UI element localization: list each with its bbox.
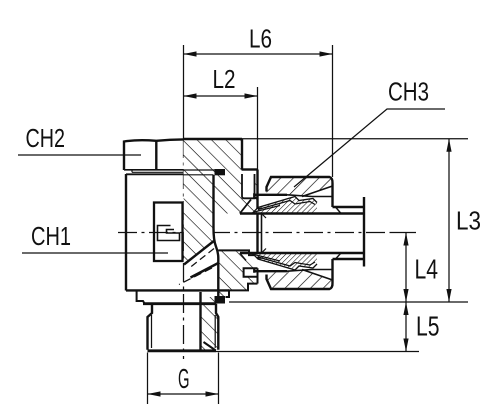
stud end (thick) with chamfers xyxy=(148,342,217,351)
stud section hatch (right wall) xyxy=(201,297,219,350)
lower cone seat xyxy=(240,253,246,261)
svg-text:L6: L6 xyxy=(249,24,272,54)
washer under body xyxy=(137,291,145,304)
dimension L4 xyxy=(403,233,408,303)
thread clearance channel (top U) xyxy=(242,174,255,198)
window cutout in swivel body xyxy=(154,203,183,262)
body section outlines (right of axis) xyxy=(184,139,258,284)
svg-text:CH1: CH1 xyxy=(31,221,71,251)
seal groove lines at top xyxy=(184,170,216,175)
tube OD lines xyxy=(240,214,363,254)
svg-text:L2: L2 xyxy=(213,64,236,94)
horizontal centerline (port axis) xyxy=(118,232,416,234)
svg-text:L3: L3 xyxy=(456,206,481,236)
body section hatch (left column down to funnel) xyxy=(184,175,214,265)
union nut CH3 hatch xyxy=(267,177,333,197)
hidden thread dashes in funnel xyxy=(190,249,214,268)
tube end flange xyxy=(363,197,365,267)
nut bore lines xyxy=(287,186,333,280)
port bore line with S-curve into lower vertical xyxy=(214,175,219,296)
body section hatch (upper column) xyxy=(184,139,258,214)
counterbore step at body face xyxy=(258,209,262,259)
svg-text:L5: L5 xyxy=(416,311,440,342)
svg-text:L4: L4 xyxy=(415,254,439,285)
vertical centerline (stud axis) xyxy=(183,45,185,359)
threaded stud G (right section half) xyxy=(201,292,219,350)
dimension L6 xyxy=(184,45,333,177)
svg-text:CH3: CH3 xyxy=(388,77,429,107)
dimension L5 xyxy=(216,302,419,352)
dimension G xyxy=(148,353,219,405)
funnel cone line B xyxy=(191,263,219,278)
body section hatch (cone wedge at port) xyxy=(240,198,258,213)
seal ring top (black) xyxy=(215,169,226,175)
port cone seat (upper) xyxy=(240,199,251,213)
cutting ring ferrule (bottom) xyxy=(252,253,317,270)
body section hatch (lower block) xyxy=(218,250,257,296)
funnel cone line A xyxy=(184,241,214,265)
svg-text:CH2: CH2 xyxy=(26,123,66,153)
svg-text:G: G xyxy=(178,363,190,394)
locknut washer step xyxy=(132,171,184,173)
dimension L3 xyxy=(229,139,468,302)
port cavity staircase (lower) xyxy=(218,250,257,297)
swivel body outline (left, view) xyxy=(126,174,229,291)
cutting ring ferrule (top) xyxy=(252,197,317,214)
tube end face inside body xyxy=(261,214,263,254)
dimension L2 xyxy=(184,87,258,170)
seal line under washer (thick) xyxy=(143,302,216,305)
hex locknut CH2 xyxy=(124,139,184,170)
union nut CH3 outline xyxy=(254,177,332,289)
threaded stud G (left view half) xyxy=(148,304,153,350)
tube sleeve right of nut xyxy=(333,207,364,259)
tube end chamfers xyxy=(262,214,267,219)
seal ring bottom (black) xyxy=(215,296,226,304)
retaining ring mark (E-clip) xyxy=(158,226,180,241)
